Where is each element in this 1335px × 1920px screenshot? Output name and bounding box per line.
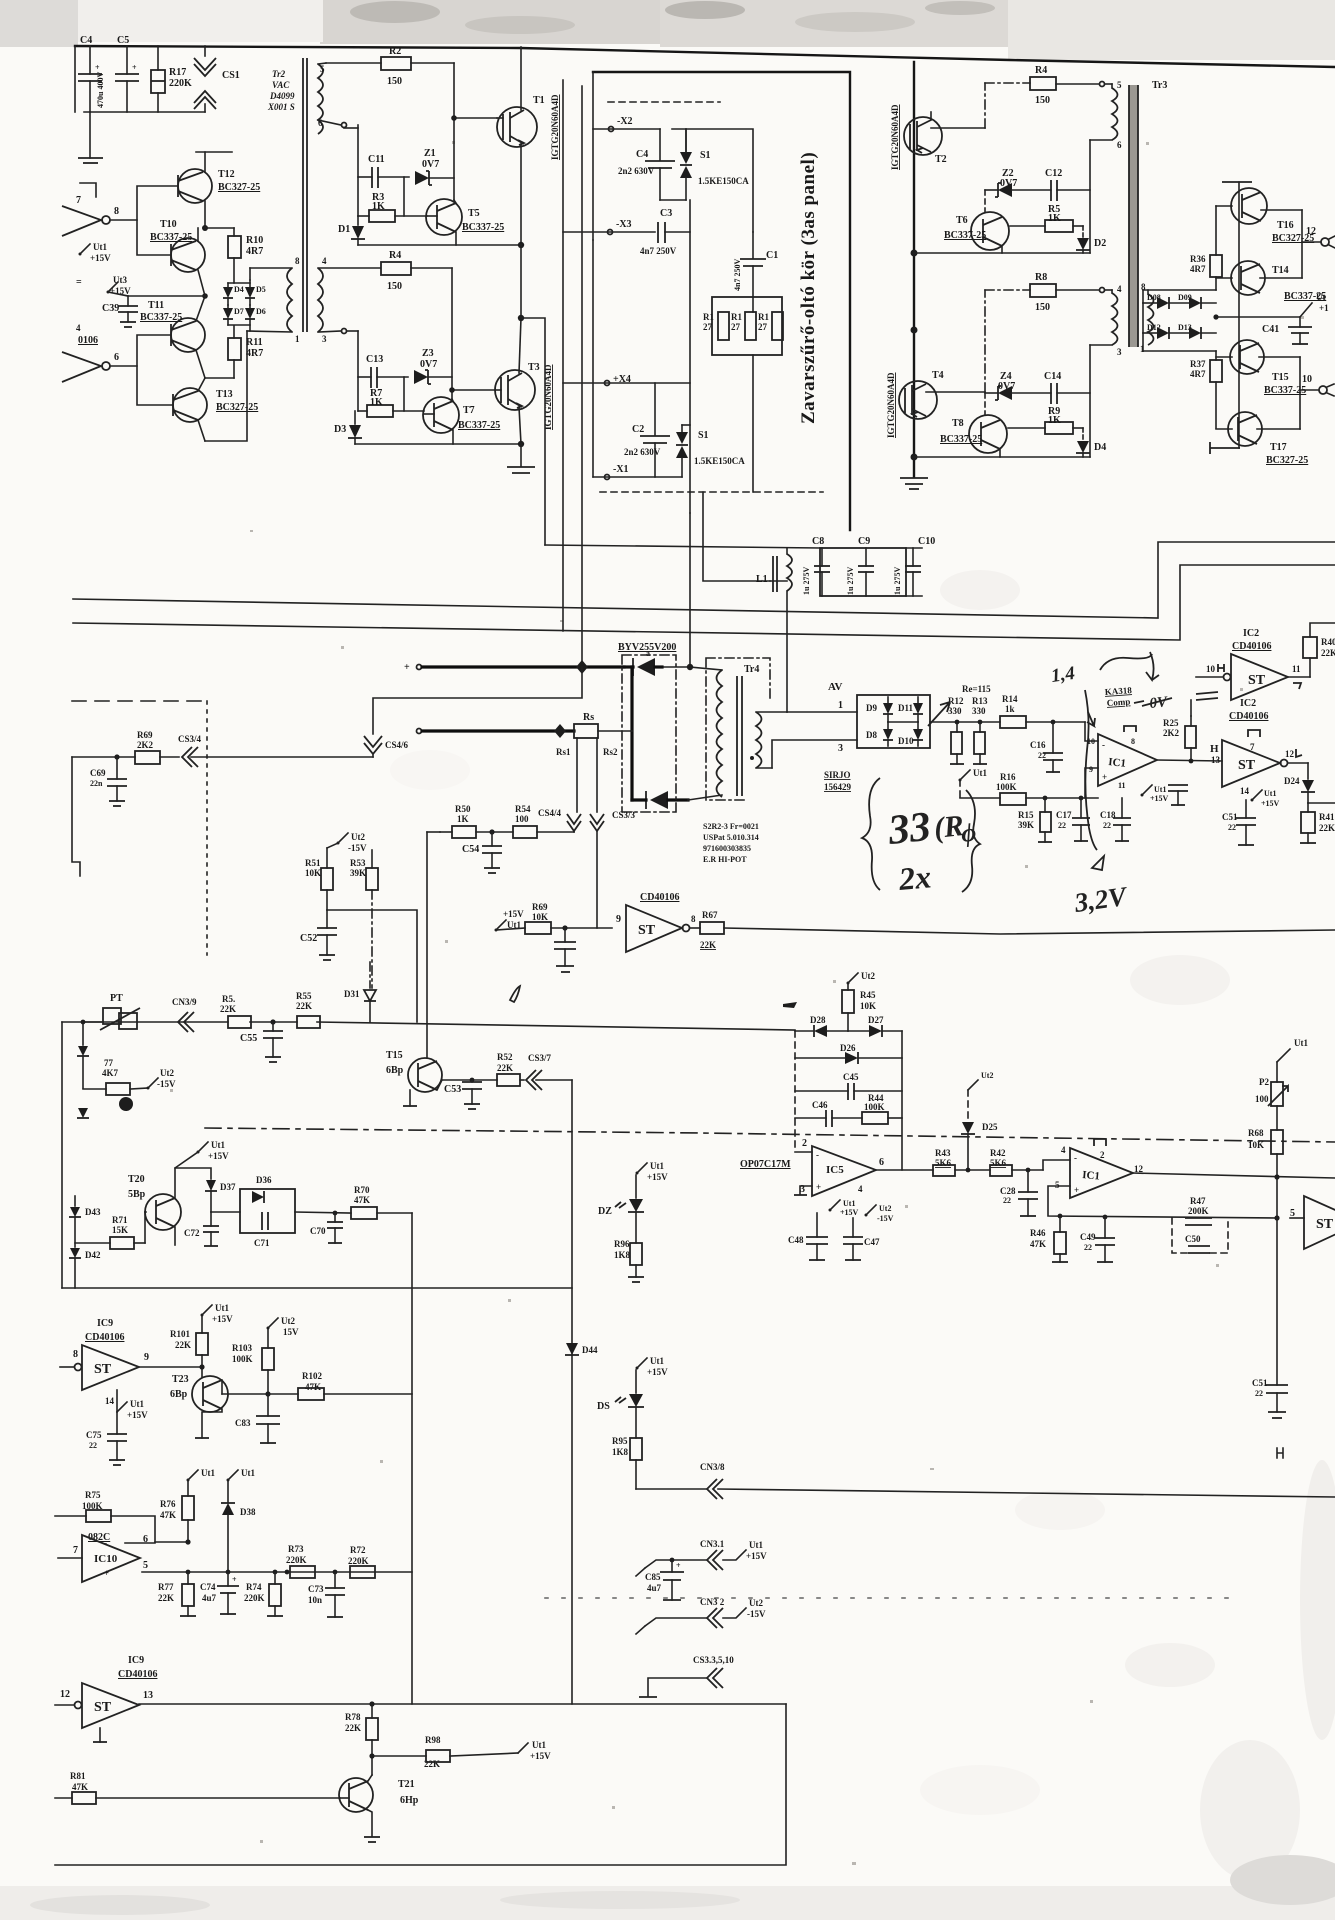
wire DC row1 [404, 662, 722, 673]
svg-text:+15V: +15V [530, 1751, 551, 1761]
terminal Ut2 -15V mid [337, 832, 367, 853]
svg-text:IC2: IC2 [1243, 628, 1259, 639]
svg-text:C28: C28 [1000, 1186, 1016, 1196]
svg-text:D11: D11 [898, 703, 914, 713]
diode D44 [565, 1343, 598, 1355]
transformer Tr4 dashed box [706, 658, 770, 800]
capacitor C39 [102, 296, 138, 327]
wire T13 emitter to pin1 [205, 331, 247, 441]
label KA318 comp [1104, 685, 1132, 708]
capacitor C71 [254, 1212, 270, 1248]
svg-text:6: 6 [1117, 140, 1122, 150]
wire IC10 pin5 row [142, 1571, 412, 1573]
svg-text:13: 13 [1211, 755, 1221, 765]
capacitor C18 [1100, 798, 1131, 841]
svg-text:C72: C72 [184, 1228, 200, 1238]
svg-text:T15: T15 [386, 1050, 403, 1061]
shunt Rs [556, 712, 632, 812]
svg-text:2x: 2x [896, 858, 932, 897]
potentiometer PT [81, 993, 140, 1030]
capacitor C5 [96, 35, 139, 112]
wire top supply bus [75, 46, 1335, 67]
LED DZ [598, 1199, 644, 1243]
svg-text:Ut3: Ut3 [113, 275, 127, 285]
svg-text:BC337-25: BC337-25 [462, 222, 504, 233]
svg-text:Comp: Comp [1106, 696, 1130, 708]
svg-text:330: 330 [948, 706, 962, 716]
resistor R76 [160, 1480, 194, 1542]
transformer Tr4 primary [717, 670, 723, 797]
resistor R42 [990, 1148, 1070, 1176]
box D36 C71 [240, 1189, 295, 1233]
svg-text:Ut1: Ut1 [749, 1540, 763, 1550]
node T1-T3 midpoint [518, 245, 524, 321]
svg-text:C51: C51 [1222, 812, 1238, 822]
svg-text:R2: R2 [389, 46, 401, 57]
svg-text:13: 13 [143, 1690, 153, 1701]
svg-text:C69: C69 [90, 768, 106, 778]
svg-text:Ut1: Ut1 [130, 1399, 144, 1409]
svg-text:22n: 22n [90, 779, 103, 788]
svg-text:1: 1 [295, 334, 300, 344]
svg-text:-X3: -X3 [616, 219, 632, 230]
transformer Tr3 core [1129, 80, 1167, 347]
svg-text:OP07C17M: OP07C17M [740, 1159, 791, 1170]
dashed box BYV [622, 655, 676, 812]
svg-text:C3: C3 [660, 208, 672, 219]
svg-text:1K8: 1K8 [612, 1447, 629, 1457]
svg-text:IC2: IC2 [1240, 698, 1256, 709]
svg-text:22: 22 [1038, 751, 1046, 760]
svg-text:100K: 100K [996, 782, 1017, 792]
svg-text:C4: C4 [80, 35, 92, 46]
svg-text:R41: R41 [1319, 812, 1335, 822]
svg-text:0V7: 0V7 [1000, 178, 1017, 189]
resistor R52 [497, 1052, 524, 1086]
svg-text:CN3.1: CN3.1 [700, 1539, 725, 1549]
svg-text:T21: T21 [398, 1779, 415, 1790]
svg-text:R67: R67 [702, 910, 718, 920]
svg-text:AV: AV [828, 681, 843, 693]
terminal Ut1 ST2 [1240, 786, 1280, 808]
svg-text:D42: D42 [85, 1250, 101, 1260]
svg-text:D10: D10 [898, 736, 914, 746]
svg-text:10n: 10n [308, 1595, 322, 1605]
opamp IC5 [740, 1138, 933, 1196]
resistor R54 [513, 804, 574, 838]
svg-text:R42: R42 [990, 1148, 1006, 1158]
output terminal 12 [1302, 210, 1335, 278]
resistor R3 [358, 177, 427, 222]
wire secondary bottom [1143, 333, 1216, 351]
svg-text:156429: 156429 [824, 782, 852, 792]
svg-text:3: 3 [1117, 347, 1122, 357]
svg-text:VAC: VAC [272, 80, 290, 90]
svg-text:R68: R68 [1248, 1128, 1264, 1138]
ink arrow blob [783, 1002, 797, 1008]
inverter IC9 ST a [60, 1345, 202, 1390]
node corner mark [80, 183, 96, 197]
svg-text:C4: C4 [636, 149, 648, 160]
ink blob [119, 1097, 133, 1111]
svg-text:4u7: 4u7 [202, 1593, 217, 1603]
svg-text:R103: R103 [232, 1343, 252, 1353]
chevron CS3/7 [526, 1053, 572, 1090]
diode D42 [69, 1217, 101, 1288]
svg-text:+15V: +15V [1150, 794, 1169, 803]
svg-text:D38: D38 [240, 1507, 256, 1517]
resistor R74 [244, 1570, 283, 1616]
svg-text:8: 8 [73, 1349, 78, 1360]
svg-text:15K: 15K [112, 1225, 128, 1235]
svg-text:C2: C2 [632, 424, 644, 435]
svg-text:D2: D2 [1094, 238, 1106, 249]
svg-text:22K: 22K [158, 1593, 174, 1603]
svg-text:ST: ST [94, 1700, 112, 1715]
svg-text:0V7: 0V7 [998, 381, 1015, 392]
svg-text:R78: R78 [345, 1712, 361, 1722]
LED DS column [636, 1356, 669, 1393]
svg-text:Ut1: Ut1 [1294, 1038, 1308, 1048]
capacitor C46 [795, 1100, 862, 1127]
svg-text:L1: L1 [756, 574, 768, 585]
transformer Tr2 label [267, 69, 295, 112]
resistor R103 [232, 1328, 274, 1397]
diode D37 [175, 1168, 236, 1212]
svg-text:7: 7 [73, 1545, 78, 1556]
svg-text:+15V: +15V [1261, 799, 1280, 808]
svg-text:Ut2: Ut2 [749, 1598, 763, 1608]
svg-text:7: 7 [76, 195, 81, 206]
svg-text:9: 9 [144, 1352, 149, 1363]
svg-text:D3: D3 [334, 424, 346, 435]
svg-text:T10: T10 [160, 219, 177, 230]
wire midpoint to panel [521, 318, 545, 545]
TVS S1 lower [676, 425, 745, 477]
svg-text:+15V: +15V [127, 1410, 148, 1420]
svg-text:8: 8 [1131, 737, 1135, 746]
svg-text:4n7 250V: 4n7 250V [640, 246, 677, 256]
handwriting triangle [1092, 856, 1104, 870]
svg-text:R96: R96 [614, 1239, 630, 1249]
svg-text:5K6: 5K6 [935, 1158, 952, 1168]
transformer Tr4 secondary [750, 712, 857, 768]
wire DC row2 [417, 724, 575, 738]
handwriting 33Rp [885, 804, 977, 854]
svg-text:C83: C83 [235, 1418, 251, 1428]
svg-text:Ut1: Ut1 [1154, 785, 1166, 794]
svg-text:150: 150 [387, 76, 402, 87]
capacitor C52 [300, 910, 337, 960]
svg-text:10K: 10K [532, 912, 548, 922]
opamp IC1b [1055, 1139, 1335, 1198]
svg-text:C11: C11 [368, 154, 385, 165]
svg-text:D26: D26 [840, 1043, 856, 1053]
svg-text:D5: D5 [256, 285, 266, 294]
svg-text:220K: 220K [244, 1593, 265, 1603]
svg-text:22K: 22K [700, 940, 716, 950]
svg-text:BC337-25: BC337-25 [940, 434, 982, 445]
svg-text:47K: 47K [72, 1782, 88, 1792]
capacitor C74 [200, 1570, 239, 1614]
svg-text:4: 4 [858, 1184, 863, 1194]
svg-text:22K: 22K [296, 1001, 312, 1011]
svg-text:200K: 200K [1188, 1206, 1209, 1216]
transistor T8 [940, 393, 1007, 457]
svg-text:Ut1: Ut1 [211, 1140, 225, 1150]
svg-text:C51: C51 [1252, 1378, 1268, 1388]
filter box C8 C9 C10 [820, 548, 922, 596]
inductor L1 [756, 548, 792, 712]
svg-text:X001 S: X001 S [267, 102, 295, 112]
svg-text:-15V: -15V [157, 1079, 176, 1089]
svg-text:47K: 47K [354, 1195, 370, 1205]
resistor R8 [985, 272, 1112, 313]
svg-text:4: 4 [1061, 1145, 1066, 1155]
wire bus A [73, 542, 1335, 618]
node rail joints [911, 250, 918, 461]
transformer Tr2 winding upper [318, 63, 347, 134]
svg-text:3: 3 [838, 743, 843, 754]
wire left column [61, 1022, 63, 1288]
svg-text:0V7: 0V7 [420, 359, 437, 370]
chevron CN3.2 [636, 1597, 766, 1634]
svg-text:T20: T20 [128, 1174, 145, 1185]
svg-text:R72: R72 [350, 1545, 366, 1555]
svg-text:22: 22 [1003, 1196, 1011, 1205]
svg-text:6Bp: 6Bp [170, 1389, 188, 1400]
svg-text:D7: D7 [234, 307, 244, 316]
diode D1 [338, 216, 365, 245]
svg-text:-: - [104, 1538, 107, 1548]
svg-text:R54: R54 [515, 804, 531, 814]
resistor R69a [135, 730, 160, 764]
svg-text:1,4: 1,4 [1050, 663, 1076, 687]
resistor R15 [1018, 796, 1052, 842]
handwriting stroke vertical [1085, 690, 1097, 850]
svg-text:470u 400V: 470u 400V [96, 72, 105, 108]
svg-text:10K: 10K [305, 868, 321, 878]
resistor R2 [326, 46, 454, 87]
capacitor C50 [1172, 1218, 1228, 1253]
resistor R5 [1010, 204, 1083, 238]
svg-text:150: 150 [1035, 95, 1050, 106]
wire R67 long line [724, 928, 1335, 934]
svg-text:R50: R50 [455, 804, 471, 814]
svg-text:-: - [1102, 740, 1105, 750]
transistor T17 [1216, 412, 1308, 466]
svg-text:IGTG20N60A4D: IGTG20N60A4D [886, 372, 896, 438]
svg-text:+: + [104, 1568, 109, 1578]
svg-text:150: 150 [1035, 302, 1050, 313]
resistor R10 [205, 228, 263, 283]
potentiometer P2 [1255, 1038, 1308, 1106]
svg-text:2: 2 [1100, 1150, 1105, 1160]
wire IC1 out [1157, 760, 1222, 761]
svg-text:R5.: R5. [222, 994, 235, 1004]
wire mid tap to Ut [1213, 292, 1329, 320]
svg-text:R76: R76 [160, 1499, 176, 1509]
resistor R14 [1000, 694, 1098, 741]
capacitor C4 panel [618, 129, 675, 200]
diode D26 [795, 1043, 902, 1064]
chevron CS4/6 [364, 736, 409, 757]
LED DS [597, 1394, 644, 1438]
capacitor C28 [1000, 1168, 1038, 1216]
capacitor C9 [846, 536, 874, 596]
svg-text:39K: 39K [1018, 820, 1034, 830]
svg-text:Ut1: Ut1 [650, 1161, 664, 1171]
svg-text:S1: S1 [698, 430, 709, 441]
op-amp IC1 KA318 [1087, 726, 1157, 790]
zener Z1 [415, 148, 454, 185]
svg-text:R69: R69 [532, 902, 548, 912]
svg-text:CS4/6: CS4/6 [385, 740, 409, 750]
capacitor C3 [640, 200, 690, 513]
handwriting arrow small [1087, 712, 1095, 726]
svg-text:22: 22 [1228, 823, 1236, 832]
svg-text:BC337-25: BC337-25 [458, 420, 500, 431]
svg-text:D1: D1 [338, 224, 350, 235]
svg-text:1.5KE150CA: 1.5KE150CA [698, 176, 749, 186]
svg-text:1u 275V: 1u 275V [893, 567, 902, 595]
svg-text:T11: T11 [148, 300, 164, 311]
terminal Ut1 +15V [79, 242, 112, 263]
resistor R81 [55, 1771, 340, 1804]
zener Z4 [985, 371, 1051, 400]
rectifier diode D08 [1143, 290, 1216, 309]
svg-text:R37: R37 [1190, 359, 1206, 369]
SECTION-A2 speckle [170, 141, 1304, 1865]
svg-text:ST: ST [94, 1362, 112, 1377]
transistor T14 [1216, 261, 1326, 302]
svg-text:T7: T7 [463, 405, 475, 416]
node emitter mid [128, 293, 208, 299]
wire output collector rail [1210, 182, 1252, 454]
terminal Ut1 +15V ic1 [1141, 785, 1169, 803]
capacitor C51b [1252, 1218, 1288, 1418]
label IC9 [118, 1655, 157, 1680]
svg-text:Z1: Z1 [424, 148, 436, 159]
svg-text:Rs: Rs [583, 712, 594, 723]
svg-text:10K: 10K [860, 1001, 876, 1011]
resistor R44 [862, 1093, 902, 1124]
svg-text:R102: R102 [302, 1371, 322, 1381]
svg-text:R95: R95 [612, 1436, 628, 1446]
dashed faint mid line [545, 1597, 1240, 1599]
svg-text:C47: C47 [864, 1237, 880, 1247]
svg-text:R77: R77 [158, 1582, 174, 1592]
svg-text:R70: R70 [354, 1185, 370, 1195]
svg-text:Ut1: Ut1 [241, 1468, 255, 1478]
terminal Ut2 r103 [267, 1316, 300, 1337]
svg-text:DZ: DZ [598, 1206, 612, 1217]
bracket mark right [1277, 1448, 1283, 1458]
wire panel exits [690, 492, 770, 667]
svg-text:CD40106: CD40106 [1232, 641, 1271, 652]
svg-text:R69: R69 [137, 730, 153, 740]
transistor T15 [386, 832, 497, 1106]
svg-text:E.R HI-POT: E.R HI-POT [703, 855, 747, 864]
svg-text:R74: R74 [246, 1582, 262, 1592]
capacitor C54 [462, 829, 502, 873]
svg-text:100: 100 [515, 814, 529, 824]
inverter ST4 [1290, 1196, 1335, 1249]
svg-text:Ut2: Ut2 [351, 832, 365, 842]
svg-text:2K2: 2K2 [137, 740, 154, 750]
transformer Tr3 winding upper [1090, 80, 1122, 150]
output terminal 10 [1300, 357, 1334, 429]
svg-text:2: 2 [802, 1138, 807, 1149]
svg-text:Tr3: Tr3 [1152, 80, 1167, 91]
svg-text:R98: R98 [425, 1735, 441, 1745]
resistor R13 [972, 696, 988, 764]
capacitor C14 [1044, 371, 1090, 404]
svg-text:Rs1: Rs1 [556, 747, 571, 757]
svg-text:ST: ST [1238, 758, 1256, 773]
svg-text:IC1: IC1 [1082, 1169, 1101, 1182]
svg-text:C16: C16 [1030, 740, 1046, 750]
inverter IC2 ST2 [1210, 698, 1308, 787]
chevron CN3.3-5-10 [639, 1655, 734, 1697]
svg-text:C50: C50 [1185, 1234, 1201, 1244]
svg-text:T13: T13 [216, 389, 233, 400]
rectifier diode D12 [1143, 303, 1169, 339]
svg-text:R15: R15 [1018, 810, 1034, 820]
svg-text:C41: C41 [1262, 324, 1279, 335]
svg-text:Ut: Ut [1316, 292, 1326, 302]
svg-text:T16: T16 [1277, 220, 1294, 231]
svg-text:4K7: 4K7 [102, 1068, 119, 1078]
svg-text:Ut2: Ut2 [879, 1204, 891, 1213]
terminal Ut1 r101 [201, 1303, 234, 1324]
svg-text:C74: C74 [200, 1582, 216, 1592]
svg-text:8: 8 [691, 914, 696, 924]
svg-text:ST: ST [638, 923, 656, 938]
chevron CS3/3 [590, 810, 636, 831]
svg-text:100K: 100K [864, 1102, 885, 1112]
svg-text:R13: R13 [972, 696, 988, 706]
diode D38 [221, 1480, 256, 1572]
wire left filter lower rail [84, 111, 205, 113]
svg-text:C10: C10 [918, 536, 935, 547]
svg-text:BC327-25: BC327-25 [218, 182, 260, 193]
svg-text:C9: C9 [858, 536, 870, 547]
terminal Ut1 ic5 [829, 1199, 859, 1217]
svg-text:15V: 15V [283, 1327, 299, 1337]
svg-text:R40: R40 [1321, 637, 1335, 647]
svg-text:T15: T15 [1272, 372, 1289, 383]
svg-text:BC337-25: BC337-25 [944, 230, 986, 241]
svg-text:C14: C14 [1044, 371, 1061, 382]
resistor R55 [296, 991, 320, 1028]
capacitor C11 [344, 125, 409, 216]
svg-text:47K: 47K [1030, 1239, 1046, 1249]
capacitor C70 [310, 1211, 343, 1243]
rectifier diode D09 [1169, 293, 1216, 309]
resistor R4b [985, 65, 1112, 106]
resistor R71 [75, 1212, 146, 1249]
svg-text:BC337-25: BC337-25 [140, 312, 182, 323]
svg-text:+15V: +15V [90, 253, 111, 263]
capacitor C45 [795, 1072, 902, 1100]
svg-text:10K: 10K [1248, 1140, 1264, 1150]
resistor R78 [345, 1701, 378, 1775]
svg-text:Ut1: Ut1 [973, 768, 987, 778]
wire sense line left [72, 756, 373, 758]
handwriting loop arrow [1100, 652, 1159, 680]
svg-text:5K6: 5K6 [990, 1158, 1007, 1168]
